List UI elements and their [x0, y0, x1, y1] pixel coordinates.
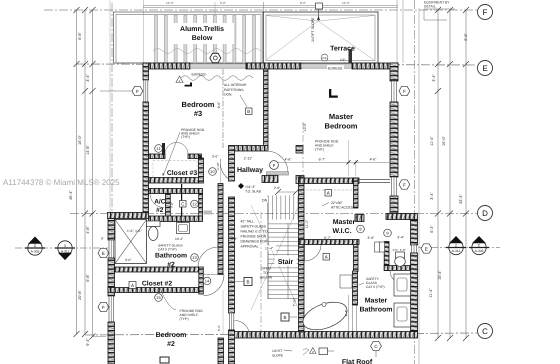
- svg-text:Master: Master: [333, 219, 356, 226]
- lower-left wall seg1: [108, 219, 115, 241]
- section marker C/A-303 left: [25, 237, 45, 256]
- svg-text:7'-10": 7'-10": [293, 297, 297, 306]
- svg-text:3'-9": 3'-9": [367, 236, 375, 240]
- svg-text:2'-0": 2'-0": [274, 186, 280, 190]
- wic shelf dashed: [306, 189, 352, 191]
- top window 1: [190, 64, 246, 68]
- bedroom2 door arc: [235, 321, 250, 336]
- square tag A wic south: [323, 254, 330, 261]
- svg-text:6'-8": 6'-8": [86, 274, 90, 282]
- svg-text:EGRESS: EGRESS: [192, 73, 207, 77]
- svg-text:9'-4": 9'-4": [86, 338, 90, 346]
- svg-text:Master: Master: [329, 112, 353, 121]
- svg-text:15'-4": 15'-4": [438, 270, 442, 280]
- svg-text:5'-6": 5'-6": [217, 325, 221, 331]
- closet2 east wall: [199, 267, 204, 294]
- svg-text:3'-4": 3'-4": [397, 236, 405, 240]
- lower-left window 1: [109, 240, 114, 258]
- svg-text:6'-7": 6'-7": [324, 236, 332, 240]
- right window 1: [392, 81, 397, 102]
- bottom pier: [218, 338, 224, 364]
- grid bubble C: [478, 324, 493, 339]
- hallway south wall y177: [262, 176, 278, 183]
- svg-text:11'-4": 11'-4": [429, 288, 433, 298]
- lower-right wall seg2: [411, 253, 418, 338]
- svg-text:14'-8": 14'-8": [86, 145, 90, 155]
- grid line F horizontal: [44, 9, 477, 11]
- master bedroom door arc: [267, 151, 289, 173]
- right wall mid: [390, 102, 398, 177]
- trellis cloud: [153, 49, 261, 54]
- stair centerline: [260, 212, 262, 331]
- svg-text:RAILING G.C. TO: RAILING G.C. TO: [241, 230, 268, 234]
- stair dim 16-4: [264, 246, 276, 251]
- svg-text:A: A: [327, 191, 330, 196]
- bedroom2 outlet box: [160, 357, 169, 363]
- wic east wall lower: [354, 241, 359, 272]
- svg-text:F: F: [273, 163, 276, 168]
- circle 15: [155, 294, 163, 302]
- bathroom2 north wall y216: [149, 216, 203, 222]
- svg-text:4'-6": 4'-6": [285, 158, 293, 162]
- left wall upper: [143, 63, 149, 80]
- svg-text:10: 10: [210, 169, 215, 174]
- svg-text:3'-6": 3'-6": [212, 155, 218, 159]
- svg-text:Master: Master: [365, 298, 388, 305]
- svg-text:#2: #2: [156, 207, 164, 214]
- tub: [299, 297, 350, 335]
- section line left y248: [15, 247, 108, 249]
- svg-text:16'-0": 16'-0": [342, 1, 350, 5]
- right dim labels: [429, 33, 468, 298]
- svg-text:DN: DN: [262, 198, 268, 202]
- svg-text:PROVIDE SHOP: PROVIDE SHOP: [241, 235, 268, 239]
- svg-text:13: 13: [192, 255, 197, 260]
- circle 9: [384, 229, 392, 237]
- svg-text:SLOPE: SLOPE: [272, 354, 284, 358]
- svg-text:A-303: A-303: [31, 250, 40, 254]
- square tag B stair left: [244, 278, 252, 286]
- top right extension lines: [396, 0, 398, 63]
- dim ticks left: [74, 7, 96, 340]
- AC door arc: [150, 194, 164, 208]
- square tag B bed3: [246, 108, 253, 115]
- svg-text:16'-4": 16'-4": [265, 247, 273, 251]
- svg-text:A-311: A-311: [61, 250, 70, 254]
- TO slab note: [238, 183, 244, 189]
- svg-text:14: 14: [205, 279, 210, 284]
- vanity 2: [394, 303, 411, 327]
- right dim line a: [437, 10, 439, 338]
- wall hallway north y145.5: [234, 146, 268, 152]
- stair west wall upper: [229, 146, 235, 182]
- left dim line mid: [84, 10, 86, 334]
- closet3 shelf dashed: [153, 161, 197, 182]
- svg-text:3'-0": 3'-0": [125, 258, 131, 262]
- section line right y247: [418, 247, 500, 249]
- sink bath2: [177, 223, 190, 234]
- stair west wall lower: [229, 197, 235, 313]
- svg-text:11'-0": 11'-0": [305, 219, 309, 228]
- square tag B stair right: [281, 313, 289, 321]
- right dim line c: [465, 10, 467, 338]
- grid vline x414: [414, 0, 416, 364]
- svg-text:E: E: [102, 251, 105, 256]
- lower-right window 1: [412, 245, 417, 253]
- svg-text:2: 2: [455, 244, 457, 248]
- svg-text:10'-4": 10'-4": [175, 237, 183, 241]
- step wall right: [386, 214, 418, 220]
- triangle 2 flat roof: [310, 348, 316, 354]
- stair treads upper: [268, 196, 298, 220]
- hex C flat roof: [371, 341, 382, 350]
- grid bubble D: [478, 206, 493, 221]
- svg-text:Bathroom: Bathroom: [155, 253, 187, 260]
- egress label 1: [191, 71, 208, 76]
- master dim line: [270, 161, 390, 163]
- hex E right lower: [421, 244, 432, 253]
- svg-text:EX: EX: [322, 56, 326, 60]
- linen shelves: [375, 242, 380, 252]
- svg-text:16'-0": 16'-0": [166, 1, 174, 5]
- circle E hall: [270, 161, 279, 170]
- svg-text:8": 8": [101, 237, 104, 241]
- svg-text:#3: #3: [194, 109, 202, 118]
- circle 13: [191, 254, 199, 262]
- svg-text:4'-4": 4'-4": [345, 309, 349, 317]
- stair east / wic west wall: [299, 177, 305, 332]
- grid line D horizontal: [70, 213, 477, 215]
- svg-text:DETAIL.: DETAIL.: [424, 5, 437, 9]
- svg-text:PARTITIONS,: PARTITIONS,: [224, 88, 244, 92]
- door jamb closet3: [162, 143, 165, 155]
- svg-text:4'-8": 4'-8": [86, 226, 90, 234]
- top wall segment 2: [246, 63, 301, 69]
- svg-text:3: 3: [64, 244, 66, 248]
- plumbing riser line: [181, 184, 183, 223]
- corridor east wall: [218, 184, 223, 275]
- egress squiggle: [181, 76, 253, 81]
- closet3 east wall: [199, 158, 204, 183]
- shower wall master bath: [353, 271, 358, 305]
- svg-text:W.I.C.: W.I.C.: [332, 228, 351, 235]
- svg-text:T.O. SLAB: T.O. SLAB: [245, 190, 262, 194]
- lower-right wall seg1: [411, 220, 418, 246]
- circle 10: [209, 168, 217, 176]
- hex F left wall: [100, 86, 143, 95]
- section marker 2/A-311 right: [446, 236, 466, 255]
- wic south wall: [299, 240, 360, 245]
- parapet edge lines: [143, 5, 398, 7]
- svg-text:UON.: UON.: [224, 93, 232, 97]
- top wall segment 1: [143, 63, 190, 69]
- svg-text:3'-4": 3'-4": [430, 192, 434, 200]
- svg-text:TO: TO: [263, 271, 268, 275]
- svg-text:(TYP.): (TYP.): [181, 135, 190, 139]
- shower glass lines: [352, 305, 354, 332]
- svg-text:Stair: Stair: [278, 258, 294, 266]
- roof drain box: [316, 3, 323, 9]
- svg-text:45'-4": 45'-4": [69, 190, 73, 200]
- lower-left wall seg3: [108, 322, 115, 364]
- svg-text:DRAWINGS FOR: DRAWINGS FOR: [241, 240, 268, 244]
- bottom wall: [232, 332, 418, 339]
- svg-text:4'-6": 4'-6": [370, 158, 378, 162]
- svg-text:D: D: [482, 209, 488, 218]
- svg-text:Bedroom: Bedroom: [325, 122, 358, 131]
- svg-text:15: 15: [156, 295, 161, 300]
- grid bubble F: [478, 5, 493, 20]
- svg-text:(TYP.): (TYP.): [180, 317, 189, 321]
- face line x419: [418, 8, 420, 364]
- trellis slats: [155, 16, 158, 64]
- svg-text:2'-10": 2'-10": [216, 162, 220, 170]
- stair rails: [267, 196, 269, 300]
- shower pan: [340, 275, 352, 288]
- wic door arc: [305, 245, 322, 262]
- svg-text:CAT II (TYP): CAT II (TYP): [158, 247, 177, 251]
- svg-text:Closet #3: Closet #3: [167, 170, 197, 177]
- AC room walls: [149, 189, 203, 194]
- svg-text:Bathroom: Bathroom: [359, 306, 392, 314]
- square tag A wic north: [325, 190, 332, 197]
- stair treads lower: [268, 224, 298, 299]
- svg-text:F: F: [483, 8, 488, 17]
- svg-text:A-303: A-303: [475, 249, 484, 253]
- hex F left lower: [98, 302, 110, 311]
- terrace box: [263, 12, 378, 63]
- circle 12: [191, 200, 199, 208]
- grid line C horizontal: [85, 333, 477, 335]
- lower-left window 2: [109, 296, 114, 322]
- svg-text:13'-5": 13'-5": [303, 122, 307, 131]
- square tag A closet2: [129, 282, 136, 289]
- EX circle: [321, 54, 328, 61]
- left wall mid: [143, 102, 149, 213]
- extension stub x215: [214, 2, 216, 14]
- svg-text:#2: #2: [167, 341, 175, 348]
- svg-text:Hallway: Hallway: [237, 166, 263, 174]
- wic north wall: [299, 178, 360, 184]
- wc south wall: [384, 266, 410, 271]
- top wall segment 3: [352, 63, 398, 69]
- hex E left lower: [98, 248, 110, 257]
- grid vline x112: [111, 3, 113, 212]
- stair wall centerline: [302, 122, 304, 180]
- wc door arc: [390, 270, 404, 284]
- svg-text:Bedroom: Bedroom: [156, 331, 187, 339]
- svg-text:22"x30": 22"x30": [331, 201, 343, 205]
- svg-text:ALL INTERIOR: ALL INTERIOR: [224, 83, 247, 87]
- bathroom2 door arc: [198, 247, 218, 267]
- stair diagonals: [251, 205, 299, 310]
- svg-text:Flat Roof: Flat Roof: [342, 358, 373, 364]
- svg-text:1'-5", 1'-6": 1'-5", 1'-6": [392, 248, 406, 252]
- svg-text:3'-4": 3'-4": [432, 74, 436, 82]
- safety glass leader: [359, 283, 364, 285]
- hex F right wall top: [399, 86, 410, 95]
- partition centerline: [222, 69, 224, 148]
- tub dim line: [348, 295, 350, 332]
- trellis outer box: [114, 12, 264, 63]
- svg-text:F: F: [403, 89, 406, 94]
- svg-text:6'-7": 6'-7": [319, 158, 327, 162]
- svg-text:B: B: [283, 315, 286, 320]
- svg-text:Bedroom: Bedroom: [182, 100, 215, 109]
- corridor door arc: [203, 275, 224, 296]
- svg-text:BELOW: BELOW: [260, 276, 273, 280]
- svg-text:SAFETY-GLASS: SAFETY-GLASS: [241, 225, 267, 229]
- hexagon drain trellis: [210, 53, 221, 63]
- section marker 3/A-311 left: [55, 241, 75, 260]
- right dim line b: [449, 10, 451, 338]
- circle 11: [155, 145, 163, 153]
- svg-text:16'-0": 16'-0": [78, 135, 82, 145]
- svg-text:(TYP.): (TYP.): [315, 148, 324, 152]
- svg-text:A/C: A/C: [154, 199, 166, 206]
- svg-text:F: F: [136, 89, 139, 94]
- hex F right wall mid: [399, 180, 410, 189]
- step wall left: [108, 213, 149, 219]
- svg-text:6'-4": 6'-4": [430, 225, 434, 233]
- wall nub nook: [355, 215, 364, 222]
- corridor door arc: [220, 159, 228, 179]
- lower-left wall seg2: [108, 258, 115, 296]
- svg-text:12: 12: [192, 202, 197, 207]
- svg-text:C: C: [482, 327, 488, 336]
- extension line x143.5: [143, 0, 145, 63]
- svg-text:A-311: A-311: [452, 249, 461, 253]
- svg-text:Alumn.Trellis: Alumn.Trellis: [180, 25, 224, 33]
- svg-text:B: B: [247, 109, 250, 114]
- svg-text:F: F: [403, 183, 406, 188]
- toilet bath2: [147, 221, 161, 227]
- svg-text:+11'-3": +11'-3": [245, 185, 256, 189]
- svg-text:1/4"/FT SLOPE: 1/4"/FT SLOPE: [311, 17, 315, 42]
- dim ticks right: [435, 7, 469, 341]
- svg-text:1'-6", 1'-6": 1'-6", 1'-6": [127, 229, 141, 233]
- svg-text:1/2": 1/2": [340, 58, 346, 62]
- wall bedroom3/master divider: [264, 69, 269, 148]
- svg-text:OPEN: OPEN: [261, 267, 271, 271]
- svg-text:6'-6": 6'-6": [464, 33, 468, 41]
- svg-text:A11744378 © Miami MLS® 2025: A11744378 © Miami MLS® 2025: [3, 178, 120, 187]
- svg-text:20'-8": 20'-8": [78, 290, 82, 300]
- extension line x110: [109, 0, 111, 213]
- closet3 wall south y180: [149, 178, 199, 184]
- wc niche west wall: [384, 242, 389, 271]
- svg-text:3'-8": 3'-8": [231, 237, 237, 241]
- grid bubble E: [478, 61, 493, 76]
- svg-text:A: A: [131, 283, 134, 288]
- wc toilet: [396, 252, 405, 258]
- svg-text:7'-0": 7'-0": [170, 202, 174, 208]
- svg-text:A: A: [325, 255, 328, 260]
- circle 8: [357, 225, 365, 233]
- circle 14: [203, 277, 211, 285]
- shower box: [115, 220, 147, 264]
- svg-text:Below: Below: [192, 34, 213, 42]
- svg-text:42" TALL: 42" TALL: [241, 220, 255, 224]
- svg-text:E: E: [482, 64, 487, 73]
- svg-text:9'-6": 9'-6": [217, 101, 221, 109]
- closet3 north wall: [149, 154, 166, 159]
- svg-text:16'-0": 16'-0": [442, 136, 446, 146]
- wc stub: [378, 243, 385, 248]
- svg-text:Closet #2: Closet #2: [142, 281, 172, 288]
- svg-text:EGRESS: EGRESS: [328, 67, 343, 71]
- closet2 north wall: [115, 267, 200, 272]
- right window 2: [392, 177, 397, 196]
- left dim labels: [69, 32, 90, 346]
- shelf bar: [204, 211, 213, 215]
- roof drain flat roof: [319, 348, 328, 355]
- egress label 2: [327, 66, 344, 71]
- square tag C: [180, 201, 187, 208]
- left dim line inner: [92, 10, 94, 337]
- svg-text:8'-0": 8'-0": [300, 1, 306, 5]
- svg-text:6'-0": 6'-0": [220, 1, 226, 5]
- wic east wall upper: [354, 178, 359, 208]
- svg-text:11'-4": 11'-4": [430, 136, 434, 146]
- closet3 doors arcs: [165, 143, 177, 155]
- stair label: [275, 256, 297, 266]
- terrace roof slope diagonals: [266, 16, 374, 61]
- svg-text:1/4"/FT: 1/4"/FT: [272, 349, 283, 353]
- closet2 south wall: [108, 288, 199, 293]
- left dim line outer: [76, 10, 78, 334]
- svg-text:APPROVAL: APPROVAL: [241, 245, 259, 249]
- svg-text:CAT II (TYP): CAT II (TYP): [366, 285, 385, 289]
- top window 2: [301, 64, 352, 68]
- svg-text:33'-4": 33'-4": [459, 194, 463, 204]
- DN label: [261, 197, 268, 203]
- right wall low: [390, 196, 398, 219]
- left window: [144, 80, 148, 102]
- L mark master: [329, 89, 338, 98]
- svg-text:F: F: [102, 305, 105, 310]
- svg-text:E: E: [425, 247, 428, 252]
- svg-text:2'-11": 2'-11": [244, 157, 253, 161]
- vanity 1: [394, 274, 411, 296]
- right wall upper: [390, 63, 398, 81]
- terrace door jamb wall: [349, 49, 353, 63]
- section marker C/A-303 right: [469, 236, 489, 255]
- svg-text:B: B: [246, 280, 249, 285]
- svg-text:ATTIC ACCESS: ATTIC ACCESS: [331, 206, 356, 210]
- svg-text:6'-8": 6'-8": [78, 32, 82, 40]
- grid line E horizontal: [76, 64, 477, 65]
- svg-text:3'-4": 3'-4": [86, 74, 90, 82]
- trellis label: [170, 23, 234, 44]
